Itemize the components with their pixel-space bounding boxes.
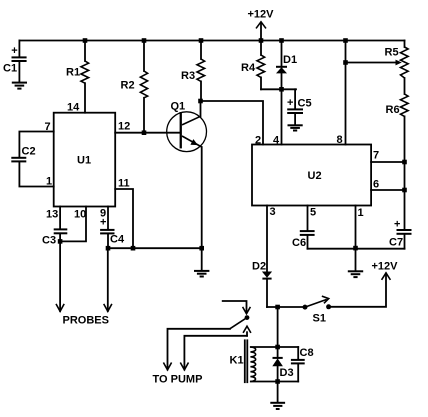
resistor R3 bbox=[181, 41, 205, 102]
wire Q1 collector node to U2 pin 2 bbox=[201, 101, 264, 145]
svg-text:C7: C7 bbox=[389, 237, 403, 249]
node: C3 bottom / pin 10 bbox=[58, 239, 63, 244]
svg-text:11: 11 bbox=[118, 178, 130, 190]
ground (under C5) bbox=[288, 125, 303, 130]
svg-text:3: 3 bbox=[270, 206, 276, 218]
wire S1 to +12V riser bbox=[329, 274, 386, 307]
svg-text:1: 1 bbox=[358, 207, 364, 219]
capacitor C2 bbox=[11, 146, 35, 162]
svg-text:R3: R3 bbox=[181, 70, 195, 82]
arrow TO PUMP (right) bbox=[181, 363, 188, 370]
node: pin 11 / rail bbox=[131, 246, 136, 251]
relay arm bbox=[230, 318, 247, 329]
svg-text:5: 5 bbox=[310, 207, 316, 219]
svg-text:K1: K1 bbox=[230, 355, 244, 367]
node: D1 anode / R4 / C5 / U2 pin 4 bbox=[279, 87, 284, 92]
wire arm to TO PUMP (upper) bbox=[168, 329, 231, 370]
ground (under U2 pin 1) bbox=[348, 249, 363, 277]
capacitor C4 bbox=[100, 207, 125, 249]
svg-text:C4: C4 bbox=[110, 234, 125, 246]
node: C4 / rail bbox=[106, 246, 111, 251]
wire R4 bottom to C5 node bbox=[261, 88, 296, 90]
svg-text:D2: D2 bbox=[252, 261, 266, 273]
capacitor C5 bbox=[287, 89, 312, 124]
node: +12V / R4 / top rail bbox=[259, 38, 264, 43]
svg-text:+: + bbox=[394, 219, 400, 231]
svg-text:R4: R4 bbox=[241, 62, 256, 74]
svg-text:6: 6 bbox=[373, 179, 379, 191]
svg-text:13: 13 bbox=[46, 209, 58, 221]
wire relay bottom rail bbox=[251, 381, 298, 383]
wire U2 pin 6 to C7 bbox=[371, 189, 404, 191]
node: pin 1 / rail bbox=[353, 246, 358, 251]
svg-text:C6: C6 bbox=[292, 237, 306, 249]
switch S1 bbox=[303, 296, 332, 324]
node: pin 8 line / top rail bbox=[343, 38, 348, 43]
node: D3 top bbox=[275, 345, 280, 350]
svg-text:7: 7 bbox=[373, 150, 379, 162]
svg-text:D1: D1 bbox=[283, 54, 297, 66]
svg-text:S1: S1 bbox=[313, 313, 326, 325]
svg-text:R6: R6 bbox=[386, 104, 400, 116]
power +12V (top) bbox=[248, 9, 275, 41]
svg-text:D3: D3 bbox=[280, 367, 294, 379]
ground (under C1) bbox=[12, 83, 27, 89]
wire D2 to S1 bbox=[267, 306, 305, 308]
svg-text:PROBES: PROBES bbox=[63, 315, 109, 327]
power +12V (at S1) bbox=[372, 261, 399, 280]
wire U1 pin 11 to ground rail bbox=[115, 189, 133, 248]
wire relay top rail bbox=[251, 346, 298, 348]
IC U1 bbox=[54, 113, 115, 207]
svg-text:R2: R2 bbox=[121, 80, 135, 92]
svg-text:+12V: +12V bbox=[372, 261, 399, 273]
diode D3 (cathode up) bbox=[272, 347, 293, 382]
node: R1 / top rail bbox=[83, 38, 88, 43]
node: D3 bottom bbox=[275, 379, 280, 384]
node: D1 / top rail bbox=[279, 38, 284, 43]
node: emitter / rail bbox=[199, 246, 204, 251]
resistor R6 bbox=[386, 94, 409, 162]
node: R3 / Q1 collector / U2 pin 2 bbox=[198, 99, 203, 104]
resistor R4 bbox=[241, 41, 265, 90]
IC U2 bbox=[252, 145, 371, 206]
relay contact: NO contact arrow (up) bbox=[244, 326, 251, 336]
wire U2 pin 8 to top rail bbox=[345, 41, 347, 145]
wire U2 pin 4 to D1 node bbox=[281, 89, 283, 144]
wire U1 pin 12 to Q1 base bbox=[115, 132, 179, 134]
capacitor C6 bbox=[292, 206, 315, 250]
resistor R1 bbox=[66, 41, 89, 113]
wire C2 to U1 pin 1 bbox=[19, 162, 53, 186]
ground (under relay) bbox=[270, 382, 285, 410]
transistor Q1 bbox=[167, 101, 207, 249]
svg-text:10: 10 bbox=[74, 209, 86, 221]
wire C3 bottom stub bbox=[59, 234, 61, 241]
svg-text:+12V: +12V bbox=[248, 9, 275, 21]
node: pin 7 / R6 bbox=[402, 160, 407, 165]
probe wire from C3 bbox=[56, 241, 63, 311]
svg-text:C8: C8 bbox=[300, 347, 314, 359]
svg-text:12: 12 bbox=[118, 121, 130, 133]
resistor R2 bbox=[121, 41, 148, 133]
svg-text:1: 1 bbox=[46, 176, 52, 188]
svg-text:4: 4 bbox=[273, 135, 280, 147]
svg-text:C3: C3 bbox=[42, 235, 56, 247]
wire relay coil drop bbox=[277, 307, 279, 347]
node: pin 6 / C7 bbox=[402, 188, 407, 193]
potentiometer R5 bbox=[385, 41, 409, 95]
node: relay coil feed bbox=[275, 305, 280, 310]
node: relay arm pivot bbox=[245, 315, 250, 320]
capacitor C3 bbox=[42, 229, 67, 246]
wire U1 pin 7 to C2 bbox=[19, 132, 53, 157]
svg-text:+: + bbox=[100, 217, 106, 229]
svg-text:C2: C2 bbox=[22, 146, 36, 158]
capacitor C8 bbox=[291, 347, 314, 382]
node: wiper / pin 8 line bbox=[343, 60, 348, 65]
relay K1 coil bbox=[230, 340, 256, 382]
ground (under Q1 emitter) bbox=[194, 248, 209, 276]
svg-text:TO PUMP: TO PUMP bbox=[153, 374, 203, 386]
svg-text:U2: U2 bbox=[308, 170, 322, 182]
svg-text:U1: U1 bbox=[77, 155, 91, 167]
svg-text:+: + bbox=[287, 97, 293, 109]
wire NO contact to TO PUMP (lower) bbox=[184, 336, 247, 370]
svg-text:Q1: Q1 bbox=[171, 101, 186, 113]
node: R3 / top rail bbox=[199, 38, 204, 43]
relay contact: fixed contact arrow (down) bbox=[243, 308, 250, 314]
wire R5 wiper from U2 pin 8 node bbox=[346, 60, 402, 66]
diode D1 (zener, cathode up) bbox=[276, 41, 297, 90]
svg-text:R1: R1 bbox=[66, 67, 80, 79]
wire ground rail (left) C4 to Q1 emitter bbox=[108, 247, 202, 249]
wire U2 pin 7 to R6 bbox=[371, 161, 404, 163]
capacitor C1 bbox=[3, 41, 27, 82]
probe wire from C4 bbox=[104, 248, 111, 311]
node: R2 / pin 12 wire bbox=[142, 130, 147, 135]
wire U2 pin 1 to ground rail bbox=[355, 206, 357, 249]
capacitor C7 bbox=[389, 162, 412, 249]
svg-text:C1: C1 bbox=[3, 63, 17, 75]
svg-text:R5: R5 bbox=[385, 47, 399, 59]
relay contact: NC stub wire bbox=[223, 301, 247, 313]
svg-text:8: 8 bbox=[337, 134, 343, 146]
node: R2 / top rail bbox=[142, 38, 147, 43]
svg-text:14: 14 bbox=[67, 102, 80, 114]
arrow TO PUMP (left) bbox=[164, 363, 171, 370]
svg-text:2: 2 bbox=[255, 135, 261, 147]
wire U1 pin 13 to C3 bbox=[59, 207, 61, 229]
wire U1 pin 10 to C3 bottom bbox=[60, 207, 86, 242]
wire ground rail (right) C6 to C7 bbox=[308, 248, 405, 250]
svg-text:+: + bbox=[11, 45, 17, 57]
diode D2 (cathode down) bbox=[252, 206, 272, 308]
svg-text:C5: C5 bbox=[298, 98, 312, 110]
wire top power rail bbox=[19, 40, 404, 42]
